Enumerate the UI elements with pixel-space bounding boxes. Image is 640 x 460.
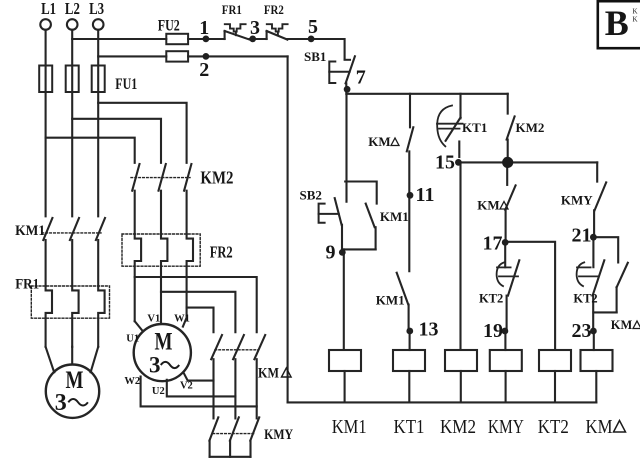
contact KM1 NO	[397, 273, 409, 331]
overload FR1 element b	[72, 286, 78, 347]
svg-text:7: 7	[356, 67, 366, 89]
label FR2 top	[264, 3, 284, 17]
node 11	[407, 184, 435, 206]
node 3	[249, 17, 260, 42]
contact KM2 NO	[507, 94, 515, 157]
svg-text:KM: KM	[477, 198, 499, 213]
svg-text:M: M	[66, 367, 84, 394]
wire V2 to delta	[184, 373, 214, 381]
svg-text:3: 3	[250, 17, 260, 39]
contact FR2 NC	[267, 24, 288, 39]
contact KMY main a	[209, 417, 218, 456]
terminal L1	[40, 19, 51, 30]
node 5	[308, 16, 318, 42]
svg-text:SB1: SB1	[304, 49, 326, 64]
wire FR1 to motor1 left	[46, 347, 55, 373]
svg-text:11: 11	[416, 184, 435, 206]
coil KT1	[393, 350, 425, 402]
node 7	[344, 67, 366, 93]
contact KM2 main c	[184, 164, 191, 234]
label FR1 top	[222, 3, 242, 17]
svg-text:FU1: FU1	[115, 76, 137, 93]
label SB2	[299, 187, 321, 202]
wire node15 horizontal	[458, 161, 597, 163]
contact KT2 delayed left	[497, 242, 520, 331]
svg-text:KM1: KM1	[376, 293, 405, 308]
svg-text:KM: KM	[611, 318, 633, 332]
svg-text:5: 5	[308, 16, 318, 38]
label KT1	[462, 120, 487, 135]
wire star point bus	[210, 456, 251, 458]
contact KT2 delayed right	[577, 237, 605, 331]
node 9	[326, 242, 346, 264]
wire node15 to coil KM2	[459, 162, 461, 350]
svg-text:19: 19	[483, 320, 503, 342]
link KMY main dotted	[213, 433, 255, 435]
contact KM-delta NO right	[593, 263, 627, 313]
label FU2	[158, 18, 180, 35]
wire control return vertical	[287, 56, 289, 402]
junction dot KM2-KMdelta	[502, 157, 513, 168]
label KM1 holding	[380, 209, 409, 224]
svg-text:L3: L3	[89, 0, 104, 18]
contact KM1 main a	[43, 218, 52, 286]
svg-text:2: 2	[199, 59, 209, 81]
pushbutton SB1	[329, 56, 355, 94]
svg-text:KM2: KM2	[200, 168, 233, 188]
label L2	[65, 0, 80, 18]
node 2	[199, 53, 209, 81]
label coil KM2	[440, 416, 476, 438]
contact KT1 delayed	[437, 106, 463, 158]
label coil KM-delta	[586, 416, 626, 438]
terminal L3	[93, 19, 104, 30]
svg-text:K: K	[633, 16, 638, 24]
svg-text:23: 23	[572, 320, 592, 342]
label coil KT1	[394, 416, 425, 438]
motor M1	[46, 365, 99, 418]
node 17	[483, 233, 509, 255]
overload FR1 box	[31, 286, 109, 318]
overload FR2 box	[122, 234, 200, 266]
overload FR1 element a	[46, 286, 52, 347]
frame B marker	[598, 1, 640, 48]
contact KM-delta main c	[254, 335, 265, 418]
wire U2 to delta	[167, 380, 236, 397]
label FU1	[115, 76, 137, 93]
svg-text:FR1: FR1	[222, 3, 242, 17]
overload FR2 element b	[161, 234, 167, 324]
contact KM-delta NC mid	[505, 167, 515, 243]
contact KM1 holding	[343, 182, 377, 250]
label FR1 main	[15, 277, 39, 293]
wire L1 vertical	[45, 30, 47, 217]
svg-text:V2: V2	[180, 380, 193, 391]
svg-text:KT2: KT2	[573, 292, 597, 306]
pin W1	[174, 314, 190, 325]
wire L1 tap to KM2 main	[46, 138, 135, 163]
label coil KM1	[332, 416, 367, 438]
fuse FU1c	[92, 66, 105, 93]
label KM2 main	[200, 168, 233, 188]
wire into motor2 W1	[183, 318, 187, 327]
svg-text:U1: U1	[126, 334, 139, 345]
svg-text:W1: W1	[174, 314, 190, 325]
svg-text:KMY: KMY	[264, 427, 293, 443]
wire node2 horizontal	[188, 55, 288, 57]
wire L3 tap to KM2 main	[98, 103, 186, 163]
svg-text:21: 21	[572, 225, 592, 247]
contact KMY main b	[230, 417, 239, 456]
coil KM1	[329, 350, 361, 402]
contact KM-delta main a	[211, 335, 222, 418]
label KMY control	[561, 192, 593, 207]
svg-text:FU2: FU2	[158, 18, 180, 35]
label KM1 main	[15, 223, 45, 239]
svg-text:KM: KM	[258, 366, 279, 382]
contact KM1 main b	[70, 218, 79, 286]
label coil KT2	[538, 416, 569, 438]
label KM-delta branchB	[368, 134, 399, 149]
label KM-delta mid	[477, 198, 508, 213]
svg-text:KM1: KM1	[332, 416, 367, 438]
label KM-delta right	[611, 318, 640, 332]
svg-text:KMY: KMY	[561, 192, 593, 207]
svg-text:U2: U2	[152, 386, 165, 397]
node 15	[435, 152, 462, 174]
label L3	[89, 0, 104, 18]
svg-text:FR2: FR2	[264, 3, 284, 17]
wire branchA upper	[345, 94, 347, 202]
svg-text:W2: W2	[124, 376, 140, 387]
wire L2 to FU2 upper	[72, 38, 166, 40]
motor M2	[134, 324, 191, 381]
svg-text:KT1: KT1	[394, 416, 425, 438]
node 13	[406, 319, 438, 341]
pin V2	[180, 380, 193, 391]
label KM-delta main	[258, 366, 291, 382]
wire node1 to FR1	[188, 38, 225, 40]
wire node3 segment	[250, 38, 267, 40]
terminal L2	[67, 19, 78, 30]
svg-text:KM1: KM1	[380, 209, 409, 224]
svg-text:3: 3	[55, 390, 67, 416]
label KM2 control	[516, 120, 545, 135]
wire U1 phase tap	[135, 277, 257, 332]
contact KMY NO	[594, 162, 606, 237]
node 23	[572, 320, 597, 342]
coil KT2	[539, 350, 571, 402]
wire L2 tap to KM2 main	[72, 119, 161, 163]
overload FR2 element c	[187, 234, 193, 318]
node 19	[483, 320, 508, 342]
label KT2 left	[479, 292, 503, 306]
label KM1 branchB	[376, 293, 405, 308]
svg-text:KT2: KT2	[479, 292, 503, 306]
svg-text:K: K	[633, 8, 638, 16]
svg-text:15: 15	[435, 152, 455, 174]
label SB1	[304, 49, 326, 64]
fuse FU1a	[39, 66, 52, 93]
pushbutton SB2	[319, 198, 342, 249]
coil KM-delta	[581, 350, 613, 402]
overload FR2 element a	[135, 234, 141, 321]
wire node5 to SB1	[287, 39, 344, 60]
wire FR1 to motor1 right	[91, 347, 99, 373]
contact FR1 NC	[225, 24, 250, 39]
fuse FU1b	[66, 66, 79, 93]
fuse FU2 lower	[166, 51, 188, 61]
contact KM-delta main b	[233, 335, 244, 418]
svg-text:KMY: KMY	[488, 416, 524, 438]
svg-text:SB2: SB2	[299, 187, 321, 202]
pin V1	[147, 314, 160, 325]
node 1	[199, 17, 209, 42]
contact KMY main c	[250, 417, 259, 456]
node 7 bus	[347, 93, 508, 95]
label motor2 M	[155, 329, 173, 356]
label KMY main	[264, 427, 293, 443]
svg-text:17: 17	[483, 233, 503, 255]
overload FR1 element c	[98, 286, 104, 347]
wire node17 to coil KT2	[505, 242, 555, 350]
node 21	[572, 225, 597, 247]
svg-text:KT2: KT2	[538, 416, 569, 438]
svg-text:FR1: FR1	[15, 277, 39, 293]
link KM2 main dotted	[131, 177, 190, 179]
svg-text:L2: L2	[65, 0, 80, 18]
svg-text:KM: KM	[586, 416, 613, 438]
wire node13 to coil KT1	[409, 331, 411, 350]
contact KM1 main c	[96, 218, 105, 286]
svg-text:B: B	[605, 3, 629, 43]
wire W2 to delta	[141, 377, 257, 407]
svg-text:9: 9	[326, 242, 336, 264]
wire node9 to coil KM1	[343, 249, 345, 350]
svg-text:KM2: KM2	[440, 416, 476, 438]
coil KM2	[445, 350, 477, 402]
svg-text:KM: KM	[368, 134, 390, 149]
wire node21 to KM-delta branch	[593, 237, 618, 262]
wire V1 phase tap	[161, 292, 235, 332]
pin W2	[124, 376, 140, 387]
label motor2 3-phase	[149, 353, 179, 378]
wire node23 to coil KM-delta	[593, 331, 595, 350]
svg-text:FR2: FR2	[210, 243, 233, 262]
pin U1	[126, 334, 139, 345]
wire branchB upper	[409, 94, 411, 128]
pin U2	[152, 386, 165, 397]
wire L3 vertical	[97, 30, 99, 217]
svg-text:3: 3	[149, 353, 161, 378]
fuse FU2 upper	[166, 34, 188, 44]
wire bottom return bus	[288, 401, 597, 403]
wire node11 to contact KM1	[408, 195, 410, 271]
svg-text:V1: V1	[147, 314, 160, 325]
svg-text:1: 1	[199, 17, 209, 39]
label L1	[41, 0, 56, 18]
label motor1 M	[66, 367, 84, 394]
svg-text:KT1: KT1	[462, 120, 487, 135]
wire into motor2 U1	[135, 321, 143, 331]
wire branchC upper	[459, 94, 461, 119]
wire W1 phase tap	[187, 308, 214, 333]
contact KM2 main b	[159, 164, 166, 234]
wire FR1 to motor1 mid	[71, 347, 73, 365]
contact KM2 main a	[132, 164, 139, 234]
label motor1 3-phase	[55, 390, 88, 416]
svg-text:KM1: KM1	[15, 223, 45, 239]
wire node19 to coil KMY	[504, 331, 506, 350]
label KT2 right	[573, 292, 597, 306]
link KM-delta main dotted	[215, 349, 258, 351]
label coil KMY	[488, 416, 524, 438]
svg-text:13: 13	[419, 319, 439, 341]
wire L2 vertical	[71, 30, 73, 217]
coil KMY	[490, 350, 522, 402]
svg-text:L1: L1	[41, 0, 56, 18]
svg-text:KM2: KM2	[516, 120, 545, 135]
contact KM-delta seal	[407, 127, 414, 195]
wire L3 to FU2 lower	[98, 55, 166, 57]
label FR2 main	[210, 243, 233, 262]
link KM1 main dotted	[42, 232, 101, 234]
